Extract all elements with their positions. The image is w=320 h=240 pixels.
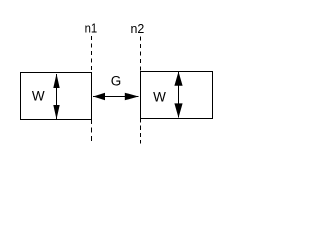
node n1 dashed reference line (lower) xyxy=(91,119,93,141)
right width arrow top head xyxy=(174,72,182,86)
gap G arrow right head xyxy=(125,93,139,101)
left width arrow stem xyxy=(56,74,58,119)
svg-text:n2: n2 xyxy=(131,21,145,36)
left conductor strip rectangle xyxy=(21,73,92,120)
left width arrow top head xyxy=(53,74,59,88)
svg-text:W: W xyxy=(32,89,45,104)
right width arrow bottom head xyxy=(174,103,182,117)
left width arrow bottom head xyxy=(53,105,59,119)
right width arrow stem xyxy=(178,72,180,118)
gap G arrow left head xyxy=(93,93,105,101)
node n1 dashed reference line (upper) xyxy=(91,36,93,72)
svg-text:G: G xyxy=(111,74,122,89)
svg-text:n1: n1 xyxy=(85,21,98,36)
gap G arrow stem xyxy=(93,96,138,98)
right conductor strip rectangle xyxy=(141,72,213,119)
svg-text:W: W xyxy=(153,89,166,104)
node n2 dashed reference line (lower) xyxy=(140,118,142,143)
node n2 dashed reference line (upper) xyxy=(140,37,142,72)
